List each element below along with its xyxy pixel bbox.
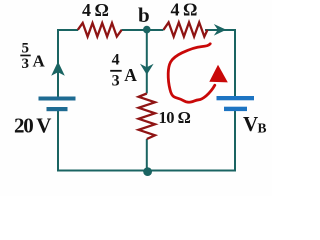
wire top-middle segment — [122, 29, 164, 31]
svg-text:3: 3 — [112, 73, 120, 90]
resistor R3 10ohm vertical zigzag — [139, 94, 155, 140]
svg-text:20 V: 20 V — [14, 114, 51, 138]
svg-text:4: 4 — [112, 52, 120, 69]
svg-text:B: B — [258, 121, 267, 136]
wire top-left segment — [58, 30, 78, 97]
svg-text:A: A — [33, 52, 46, 71]
battery VB long plate — [217, 96, 255, 100]
svg-text:4 Ω: 4 Ω — [171, 0, 198, 20]
svg-text:3: 3 — [22, 56, 30, 72]
current arrow right on top wire — [214, 24, 227, 36]
resistor R1 4ohm left zigzag — [78, 23, 122, 37]
label VB — [243, 112, 267, 136]
wire middle branch upper — [146, 30, 148, 94]
label 5/3 A fraction — [20, 41, 45, 72]
resistor R2 4ohm right zigzag — [164, 22, 208, 36]
svg-text:10 Ω: 10 Ω — [159, 108, 191, 127]
svg-text:5: 5 — [22, 41, 30, 57]
current arrow down on middle branch — [140, 64, 154, 75]
wire left-bottom segment — [58, 111, 235, 171]
svg-text:4 Ω: 4 Ω — [82, 0, 109, 20]
svg-text:b: b — [138, 3, 150, 27]
svg-text:A: A — [124, 65, 137, 85]
red mesh arrowhead — [209, 65, 228, 83]
wire top-right segment — [205, 30, 235, 96]
label 4/3 A fraction — [110, 52, 137, 90]
battery VB short plate — [224, 107, 247, 111]
wire middle branch lower — [146, 139, 148, 171]
battery V1 20V long plate — [39, 97, 76, 101]
current arrow up on left branch — [51, 62, 65, 76]
red mesh loop stroke — [168, 44, 215, 102]
bottom junction dot — [143, 167, 152, 176]
svg-text:V: V — [243, 112, 258, 136]
battery V1 20V short plate — [47, 107, 68, 111]
node b junction dot — [143, 26, 151, 34]
